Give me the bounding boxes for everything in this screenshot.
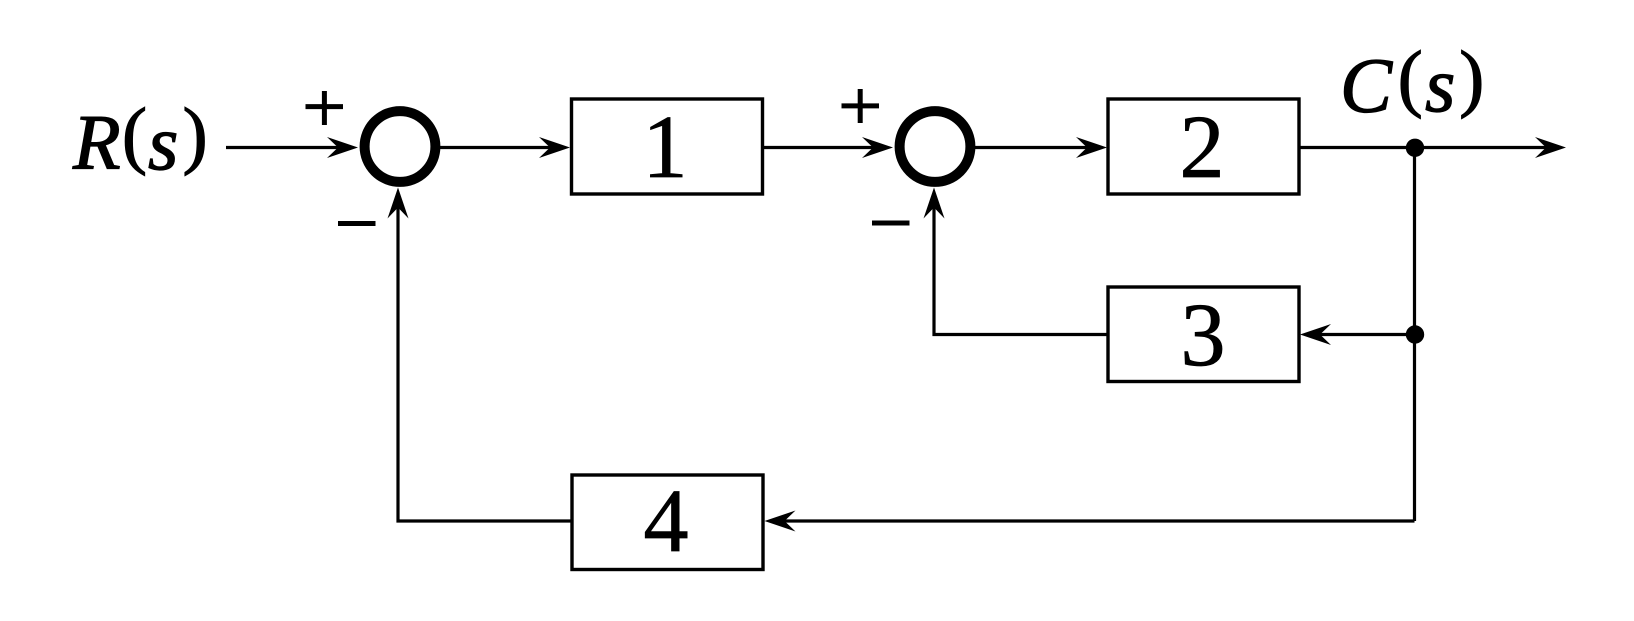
svg-text:): ) [183,93,208,176]
svg-text:3: 3 [1181,286,1226,385]
node dot takeoff point on output line [1406,139,1424,157]
svg-text:): ) [1459,36,1484,119]
node C(s) output label [1340,36,1484,129]
svg-text:s: s [1425,41,1455,128]
wire bottom feedback corner to block 4 input [765,511,1415,532]
node dot takeoff for block 3 feedback [1406,325,1424,343]
wire block 1 to summing junction S2 [762,137,893,158]
wire block 4 output to S1 minus input [388,188,573,522]
minus sign at summing junction S1 [338,221,376,226]
wire vertical from output node down [1413,147,1416,521]
svg-text:2: 2 [1180,98,1225,197]
plus sign at summing junction S1 [306,91,344,125]
svg-text:4: 4 [644,472,689,571]
wire block 3 output to S2 minus input [924,188,1109,335]
plus sign at summing junction S2 [842,89,880,123]
wire S1 to block 1 [440,137,570,158]
block 3 [1108,286,1299,385]
node R(s) input label [72,93,208,186]
wire node to block 3 input [1300,324,1415,345]
minus sign at summing junction S2 [872,221,910,226]
svg-text:(: ( [1398,36,1423,119]
block 2 [1108,98,1299,197]
wire S2 to block 2 [975,137,1107,158]
svg-text:R: R [72,99,121,186]
svg-text:1: 1 [643,98,688,197]
summing junction S1 [365,111,436,182]
summing junction S2 [900,111,971,182]
svg-text:C: C [1340,42,1393,129]
wire R(s) to summing junction S1 [226,137,358,158]
svg-text:(: ( [122,93,147,176]
wire block 2 to output arrow [1299,137,1566,158]
svg-text:s: s [148,99,178,186]
block 4 [572,472,763,571]
block 1 [572,98,763,197]
